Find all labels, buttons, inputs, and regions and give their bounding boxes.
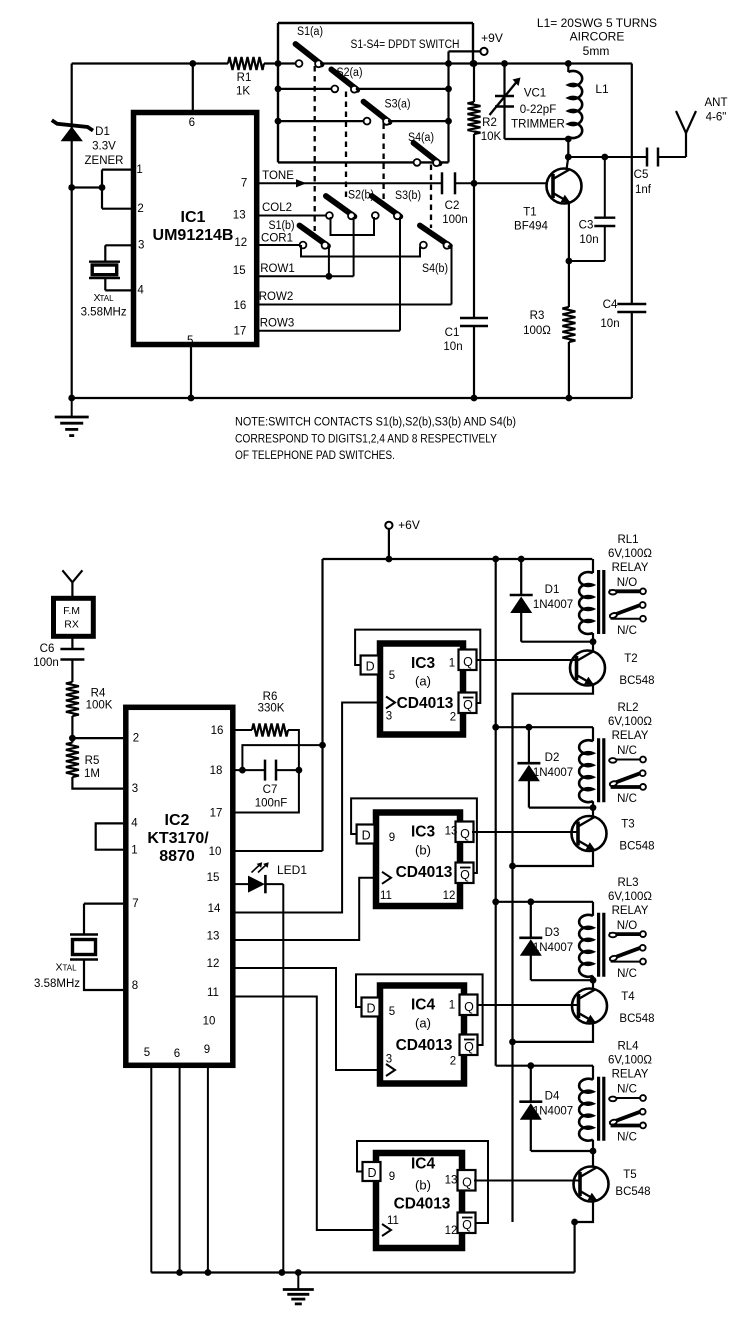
svg-text:BC548: BC548 xyxy=(619,1013,654,1025)
svg-text:T3: T3 xyxy=(621,819,634,831)
svg-text:C6: C6 xyxy=(40,643,55,655)
svg-text:T4: T4 xyxy=(621,991,635,1003)
svg-text:2: 2 xyxy=(133,733,139,745)
svg-text:D: D xyxy=(366,1002,375,1016)
svg-text:9: 9 xyxy=(389,1171,395,1183)
svg-text:Q: Q xyxy=(463,655,473,669)
svg-text:5: 5 xyxy=(389,670,395,682)
svg-text:OF TELEPHONE PAD SWITCHES.: OF TELEPHONE PAD SWITCHES. xyxy=(235,448,395,462)
svg-text:12: 12 xyxy=(445,1225,458,1237)
svg-text:2: 2 xyxy=(450,1056,456,1068)
svg-text:S3(b): S3(b) xyxy=(395,190,421,202)
svg-text:ROW1: ROW1 xyxy=(260,263,295,275)
svg-text:6V,100Ω: 6V,100Ω xyxy=(608,716,652,728)
svg-text:CD4013: CD4013 xyxy=(397,695,454,712)
svg-text:N/C: N/C xyxy=(617,1132,637,1144)
svg-text:16: 16 xyxy=(211,725,224,737)
svg-text:N/C: N/C xyxy=(617,625,637,637)
svg-text:S1(a): S1(a) xyxy=(297,26,323,38)
svg-text:N/C: N/C xyxy=(617,745,637,757)
svg-text:D: D xyxy=(366,660,375,674)
svg-text:S4(a): S4(a) xyxy=(408,132,434,144)
svg-text:KT3170/: KT3170/ xyxy=(147,830,209,847)
svg-text:BC548: BC548 xyxy=(619,675,654,687)
svg-text:R5: R5 xyxy=(85,755,100,767)
svg-text:Q: Q xyxy=(462,1176,472,1190)
svg-text:11: 11 xyxy=(207,987,219,999)
svg-text:9: 9 xyxy=(204,1044,210,1056)
svg-text:S4(b): S4(b) xyxy=(422,263,448,275)
svg-text:1: 1 xyxy=(449,658,455,670)
svg-text:S1-S4= DPDT SWITCH: S1-S4= DPDT SWITCH xyxy=(351,37,460,51)
svg-text:COL2: COL2 xyxy=(262,202,292,214)
svg-text:T1: T1 xyxy=(523,207,536,219)
svg-text:6V,100Ω: 6V,100Ω xyxy=(608,1055,652,1067)
svg-text:R4: R4 xyxy=(91,688,106,700)
svg-text:D: D xyxy=(367,1166,376,1180)
svg-text:13: 13 xyxy=(445,1175,458,1187)
svg-text:6: 6 xyxy=(189,117,195,129)
svg-text:1: 1 xyxy=(449,1000,455,1012)
svg-text:4: 4 xyxy=(137,285,144,297)
svg-text:X: X xyxy=(55,962,62,974)
svg-text:1N4007: 1N4007 xyxy=(533,1106,573,1118)
svg-text:11: 11 xyxy=(380,890,392,902)
svg-text:3: 3 xyxy=(386,711,392,723)
svg-text:T5: T5 xyxy=(623,1169,636,1181)
svg-text:9: 9 xyxy=(389,832,395,844)
svg-text:1N4007: 1N4007 xyxy=(533,942,573,954)
svg-text:CD4013: CD4013 xyxy=(396,1037,453,1054)
svg-text:COR1: COR1 xyxy=(261,233,293,245)
svg-text:ANT: ANT xyxy=(705,97,728,109)
svg-text:(a): (a) xyxy=(415,1016,431,1031)
svg-text:IC3: IC3 xyxy=(411,655,436,672)
svg-text:2: 2 xyxy=(450,712,456,724)
svg-text:CORRESPOND TO DIGITS1,2,4 AND: CORRESPOND TO DIGITS1,2,4 AND 8 RESPECTI… xyxy=(235,432,497,446)
svg-text:100K: 100K xyxy=(86,700,113,712)
svg-text:N/C: N/C xyxy=(617,1084,637,1096)
svg-text:N/C: N/C xyxy=(617,968,637,980)
svg-text:S3(a): S3(a) xyxy=(385,99,411,111)
svg-text:Q: Q xyxy=(460,868,470,882)
svg-text:IC4: IC4 xyxy=(411,1156,436,1173)
svg-text:1: 1 xyxy=(136,164,142,176)
svg-text:N/O: N/O xyxy=(617,577,638,589)
svg-text:Q: Q xyxy=(464,1000,474,1014)
svg-text:12: 12 xyxy=(207,958,220,970)
svg-text:C2: C2 xyxy=(445,200,460,212)
svg-text:18: 18 xyxy=(210,765,223,777)
svg-text:3: 3 xyxy=(386,1054,392,1066)
svg-text:10: 10 xyxy=(209,846,222,858)
svg-text:TRIMMER: TRIMMER xyxy=(511,119,565,131)
svg-text:13: 13 xyxy=(233,210,246,222)
svg-text:10K: 10K xyxy=(481,131,502,143)
svg-text:IC2: IC2 xyxy=(165,812,190,829)
svg-text:1nf: 1nf xyxy=(635,184,652,196)
svg-text:R1: R1 xyxy=(237,72,252,84)
svg-text:100n: 100n xyxy=(33,657,59,669)
svg-text:100Ω: 100Ω xyxy=(523,325,551,337)
svg-text:L1: L1 xyxy=(595,82,609,96)
svg-text:10: 10 xyxy=(203,1016,216,1028)
svg-text:F.M: F.M xyxy=(63,605,80,617)
svg-text:IC3: IC3 xyxy=(411,824,436,841)
svg-text:TAL: TAL xyxy=(62,964,77,973)
svg-text:R3: R3 xyxy=(530,310,545,322)
svg-text:D2: D2 xyxy=(545,752,560,764)
svg-text:RELAY: RELAY xyxy=(612,905,649,917)
svg-text:CD4013: CD4013 xyxy=(396,864,453,881)
svg-text:3: 3 xyxy=(138,240,144,252)
svg-text:6V,100Ω: 6V,100Ω xyxy=(608,891,652,903)
svg-text:VC1: VC1 xyxy=(524,88,546,100)
svg-text:(a): (a) xyxy=(415,674,431,689)
svg-text:15: 15 xyxy=(233,265,246,277)
svg-text:CD4013: CD4013 xyxy=(394,1196,451,1213)
svg-text:8870: 8870 xyxy=(159,848,195,865)
svg-text:TAL: TAL xyxy=(99,294,114,303)
svg-text:IC4: IC4 xyxy=(411,997,436,1014)
svg-text:12: 12 xyxy=(234,237,247,249)
svg-text:1K: 1K xyxy=(236,86,250,98)
svg-text:N/C: N/C xyxy=(617,793,637,805)
svg-text:3.58MHz: 3.58MHz xyxy=(34,978,80,990)
svg-text:RL1: RL1 xyxy=(617,534,638,546)
svg-text:17: 17 xyxy=(234,326,247,338)
svg-text:10n: 10n xyxy=(579,234,598,246)
svg-text:3.3V: 3.3V xyxy=(92,141,116,153)
svg-text:5: 5 xyxy=(389,1006,395,1018)
svg-text:14: 14 xyxy=(208,903,221,915)
svg-text:13: 13 xyxy=(445,826,458,838)
svg-text:330K: 330K xyxy=(258,703,285,715)
svg-text:S1(b): S1(b) xyxy=(269,220,295,232)
svg-text:D4: D4 xyxy=(545,1091,560,1103)
svg-text:D1: D1 xyxy=(545,584,560,596)
svg-text:Q: Q xyxy=(462,1218,472,1232)
svg-text:D: D xyxy=(362,829,371,843)
svg-text:Q: Q xyxy=(460,827,470,841)
svg-text:4-6": 4-6" xyxy=(706,112,727,124)
svg-text:1: 1 xyxy=(131,845,137,857)
svg-text:6V,100Ω: 6V,100Ω xyxy=(608,548,652,560)
svg-text:BC548: BC548 xyxy=(615,1186,650,1198)
svg-text:8: 8 xyxy=(132,980,138,992)
svg-text:6: 6 xyxy=(174,1048,180,1060)
svg-text:C4: C4 xyxy=(603,299,618,311)
svg-text:ROW2: ROW2 xyxy=(259,291,294,303)
svg-text:IC1: IC1 xyxy=(181,209,206,226)
svg-text:(b): (b) xyxy=(415,843,431,858)
svg-text:Q: Q xyxy=(464,1040,474,1054)
svg-text:D3: D3 xyxy=(545,927,560,939)
svg-text:16: 16 xyxy=(234,300,247,312)
svg-text:12: 12 xyxy=(443,890,456,902)
svg-text:0-22pF: 0-22pF xyxy=(520,104,556,116)
svg-text:RELAY: RELAY xyxy=(612,1069,649,1081)
svg-text:RL4: RL4 xyxy=(617,1041,639,1053)
svg-text:C7: C7 xyxy=(263,784,278,796)
svg-text:5: 5 xyxy=(144,1047,150,1059)
svg-text:L1= 20SWG 5 TURNS: L1= 20SWG 5 TURNS xyxy=(537,16,657,30)
svg-text:17: 17 xyxy=(210,808,223,820)
svg-text:BC548: BC548 xyxy=(619,841,654,853)
svg-text:R6: R6 xyxy=(263,691,278,703)
svg-text:11: 11 xyxy=(387,1215,399,1227)
svg-text:BF494: BF494 xyxy=(514,221,548,233)
svg-text:+6V: +6V xyxy=(398,518,420,532)
svg-text:R2: R2 xyxy=(482,117,497,129)
svg-text:10n: 10n xyxy=(443,341,462,353)
svg-text:UM91214B: UM91214B xyxy=(153,227,234,244)
svg-text:+9V: +9V xyxy=(481,31,503,45)
svg-text:C5: C5 xyxy=(634,169,649,181)
svg-text:RELAY: RELAY xyxy=(612,730,649,742)
svg-text:100n: 100n xyxy=(442,214,468,226)
svg-text:(b): (b) xyxy=(415,1178,431,1193)
svg-text:NOTE:SWITCH CONTACTS S1(b),S2(: NOTE:SWITCH CONTACTS S1(b),S2(b),S3(b) A… xyxy=(235,415,516,429)
svg-text:LED1: LED1 xyxy=(277,863,307,877)
svg-text:3: 3 xyxy=(132,783,138,795)
svg-text:T2: T2 xyxy=(624,653,637,665)
svg-text:7: 7 xyxy=(132,898,138,910)
svg-text:RELAY: RELAY xyxy=(612,562,649,574)
svg-text:15: 15 xyxy=(207,872,220,884)
svg-text:ZENER: ZENER xyxy=(85,155,124,167)
svg-text:2: 2 xyxy=(137,203,143,215)
svg-text:N/O: N/O xyxy=(617,920,638,932)
svg-text:1N4007: 1N4007 xyxy=(533,599,573,611)
svg-text:1N4007: 1N4007 xyxy=(533,767,573,779)
svg-text:1M: 1M xyxy=(84,768,100,780)
svg-text:C3: C3 xyxy=(579,220,594,232)
svg-text:RL2: RL2 xyxy=(617,702,638,714)
svg-text:5: 5 xyxy=(187,335,193,347)
svg-text:100nF: 100nF xyxy=(255,798,288,810)
svg-text:4: 4 xyxy=(131,818,138,830)
svg-text:5mm: 5mm xyxy=(583,44,610,58)
svg-text:D1: D1 xyxy=(95,126,110,138)
svg-text:ROW3: ROW3 xyxy=(260,318,295,330)
svg-text:TONE: TONE xyxy=(262,170,294,182)
svg-text:RL3: RL3 xyxy=(617,877,638,889)
svg-text:10n: 10n xyxy=(600,318,619,330)
svg-text:C1: C1 xyxy=(445,327,460,339)
svg-text:13: 13 xyxy=(207,931,220,943)
svg-text:7: 7 xyxy=(241,178,247,190)
svg-text:AIRCORE: AIRCORE xyxy=(570,30,625,44)
svg-text:Q: Q xyxy=(463,698,473,712)
svg-text:3.58MHz: 3.58MHz xyxy=(81,307,127,319)
svg-text:S2(a): S2(a) xyxy=(337,67,363,79)
svg-text:RX: RX xyxy=(64,619,79,631)
